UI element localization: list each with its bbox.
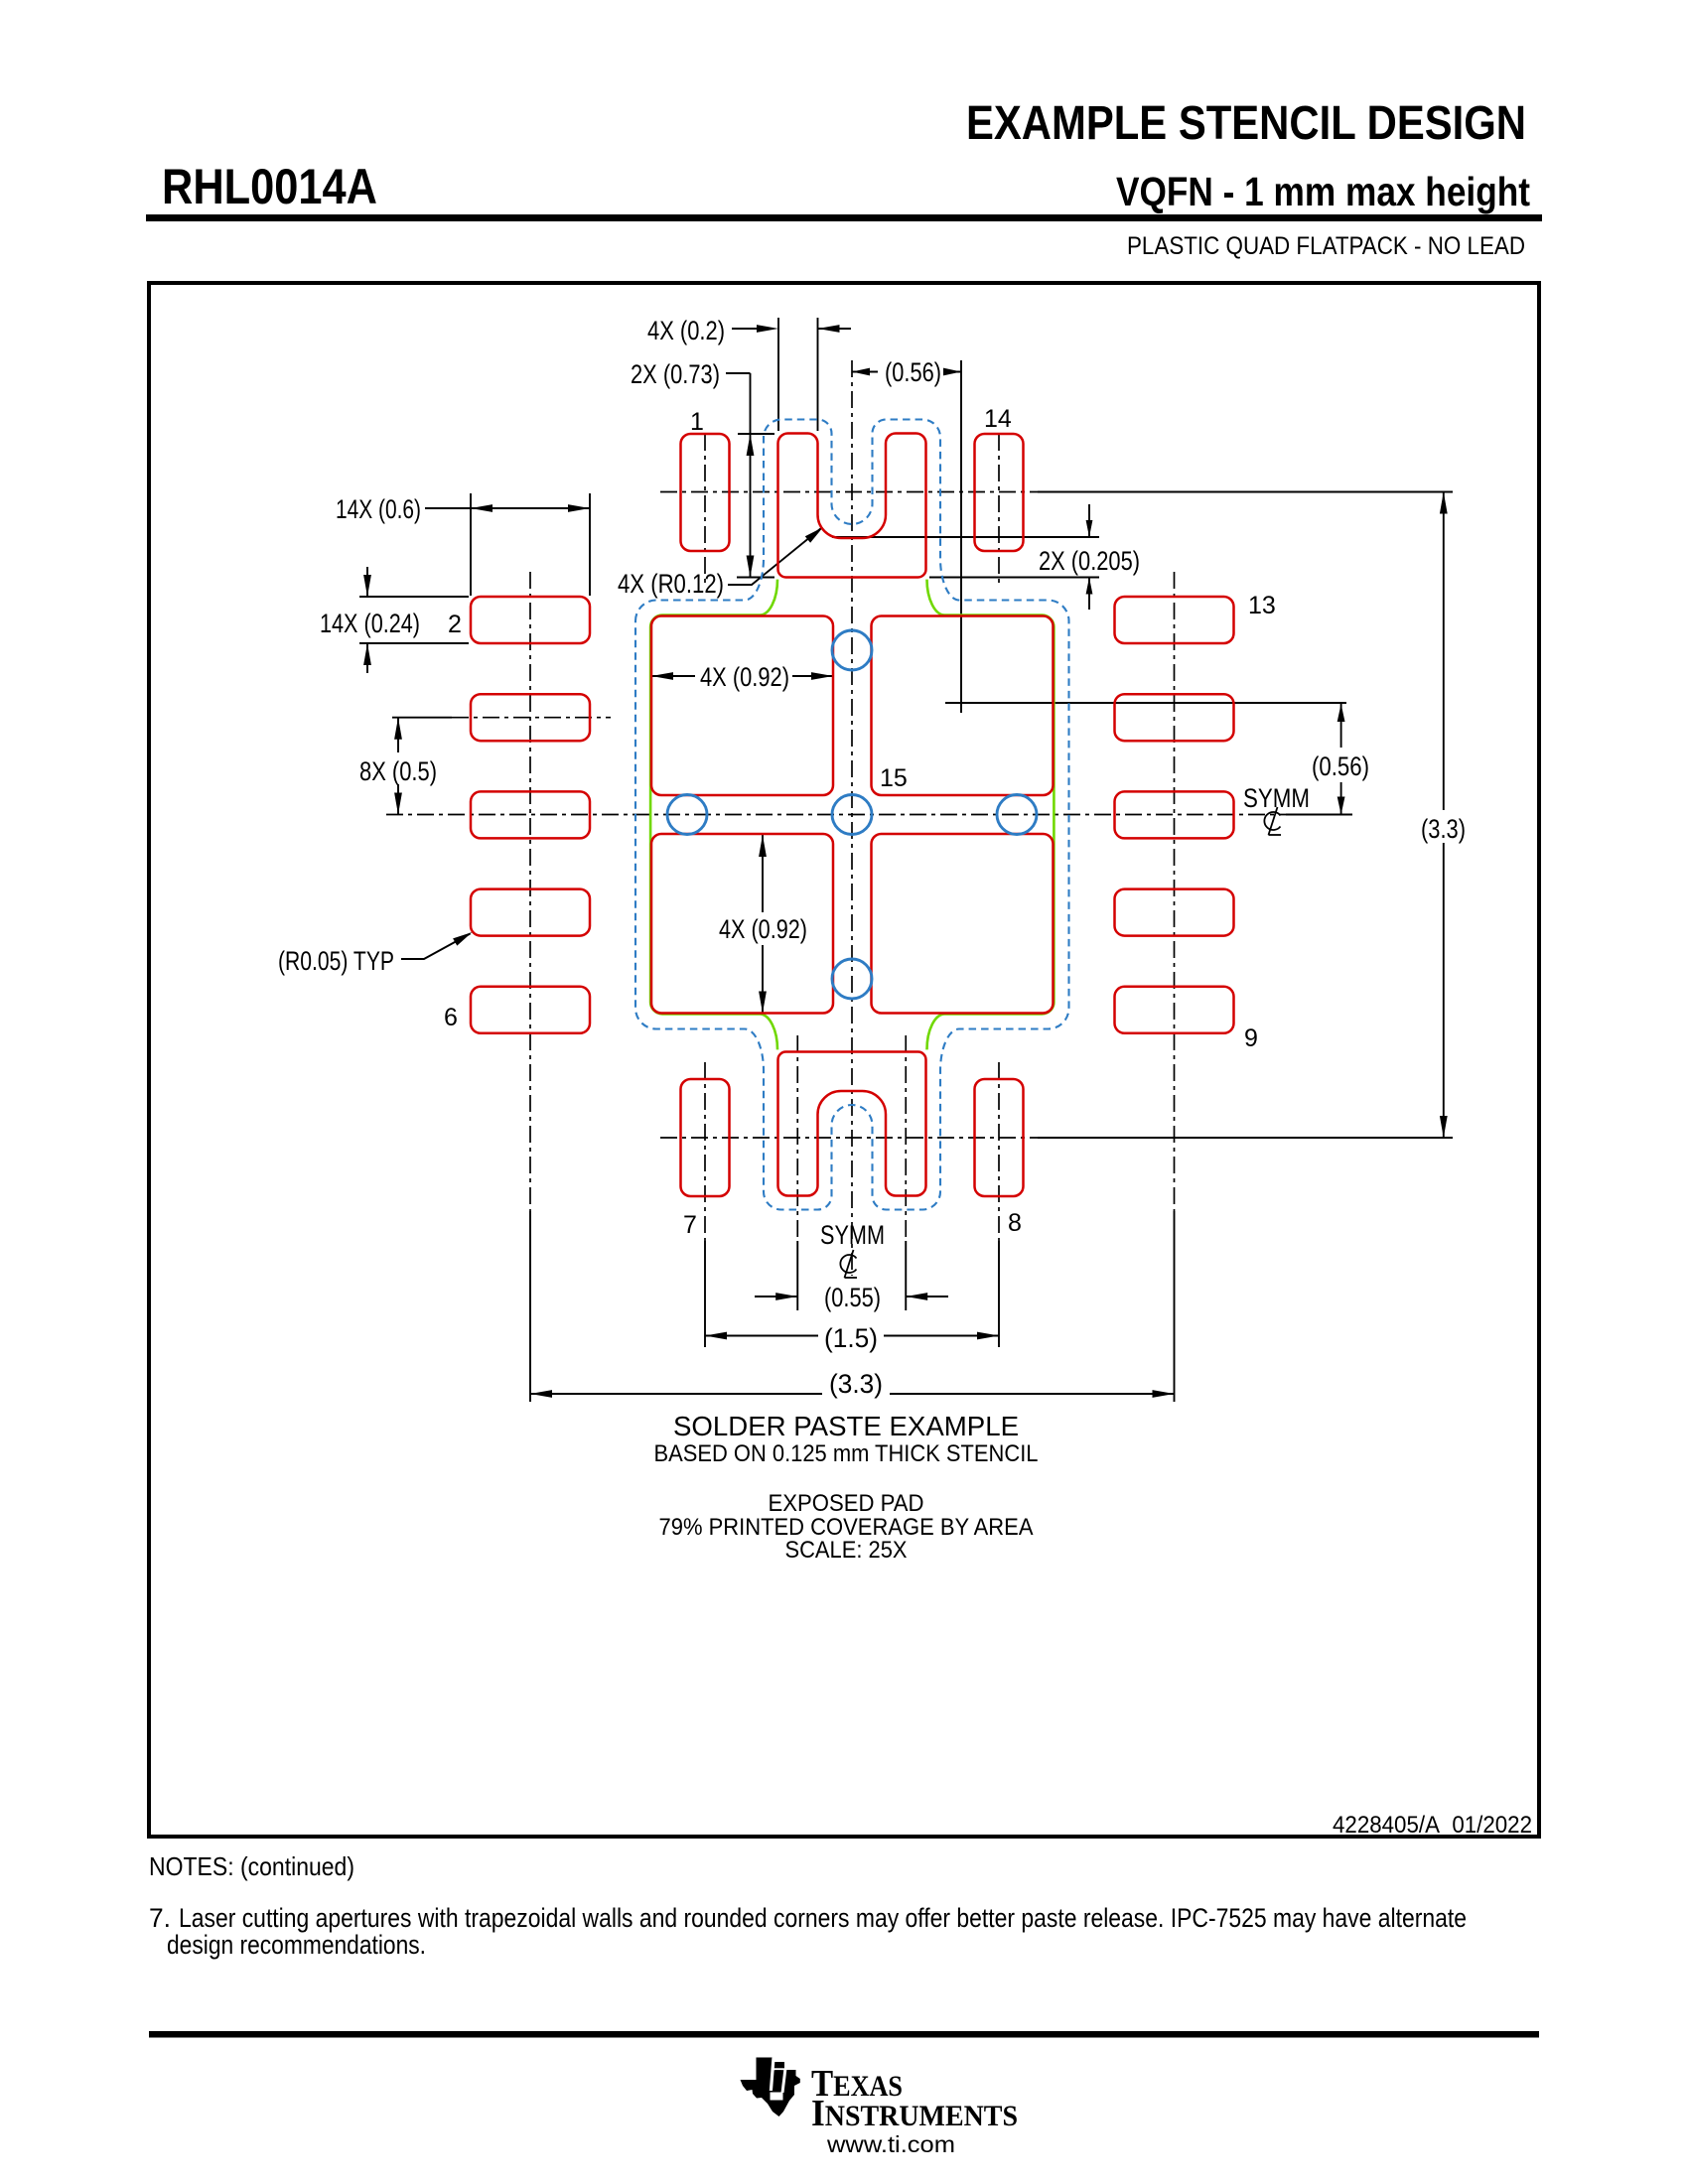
svg-text:2: 2 <box>448 611 462 638</box>
svg-text:VQFN - 1 mm max height: VQFN - 1 mm max height <box>1116 169 1530 214</box>
svg-text:4X (0.92): 4X (0.92) <box>719 914 807 944</box>
svg-text:7.: 7. <box>149 1903 171 1933</box>
svg-text:(R0.05) TYP: (R0.05) TYP <box>278 946 394 976</box>
svg-text:4228405/A 01/2022: 4228405/A 01/2022 <box>1333 1812 1532 1839</box>
svg-text:design recommendations.: design recommendations. <box>167 1930 426 1960</box>
svg-text:www.ti.com: www.ti.com <box>826 2131 955 2157</box>
svg-text:SYMM: SYMM <box>820 1220 885 1250</box>
svg-text:(0.55): (0.55) <box>824 1283 881 1312</box>
svg-text:8X (0.5): 8X (0.5) <box>359 756 437 786</box>
svg-text:7: 7 <box>683 1211 697 1239</box>
svg-text:PLASTIC QUAD FLATPACK - NO LEA: PLASTIC QUAD FLATPACK - NO LEAD <box>1127 232 1525 260</box>
svg-text:(3.3): (3.3) <box>1421 814 1466 844</box>
svg-text:13: 13 <box>1248 592 1276 619</box>
svg-text:14: 14 <box>984 405 1012 433</box>
svg-text:15: 15 <box>880 764 908 792</box>
svg-text:4X (0.92): 4X (0.92) <box>700 662 789 692</box>
svg-text:INSTRUMENTS: INSTRUMENTS <box>811 2093 1018 2134</box>
svg-text:6: 6 <box>444 1004 458 1031</box>
svg-text:4X (R0.12): 4X (R0.12) <box>618 569 724 599</box>
svg-text:(0.56): (0.56) <box>1312 751 1369 781</box>
svg-text:4X (0.2): 4X (0.2) <box>647 316 725 345</box>
svg-text:14X (0.24): 14X (0.24) <box>320 609 420 638</box>
svg-text:8: 8 <box>1008 1209 1022 1237</box>
svg-text:BASED ON 0.125 mm THICK STENCI: BASED ON 0.125 mm THICK STENCIL <box>654 1440 1039 1467</box>
svg-text:SOLDER PASTE EXAMPLE: SOLDER PASTE EXAMPLE <box>673 1411 1019 1441</box>
svg-text:NOTES: (continued): NOTES: (continued) <box>149 1851 354 1881</box>
svg-text:RHL0014A: RHL0014A <box>162 159 377 214</box>
svg-text:1: 1 <box>690 408 704 436</box>
svg-text:(3.3): (3.3) <box>829 1369 883 1399</box>
svg-text:9: 9 <box>1244 1024 1258 1052</box>
svg-text:14X (0.6): 14X (0.6) <box>336 494 421 524</box>
svg-text:(0.56): (0.56) <box>885 357 941 387</box>
svg-text:2X (0.73): 2X (0.73) <box>631 359 720 389</box>
svg-text:Laser cutting apertures with t: Laser cutting apertures with trapezoidal… <box>179 1903 1467 1933</box>
svg-text:SCALE: 25X: SCALE: 25X <box>785 1537 908 1564</box>
svg-text:TEXAS: TEXAS <box>811 2063 903 2105</box>
svg-text:(1.5): (1.5) <box>824 1323 878 1353</box>
svg-text:EXAMPLE STENCIL DESIGN: EXAMPLE STENCIL DESIGN <box>966 97 1526 150</box>
svg-text:EXPOSED PAD: EXPOSED PAD <box>769 1490 924 1517</box>
svg-text:2X (0.205): 2X (0.205) <box>1039 546 1140 576</box>
